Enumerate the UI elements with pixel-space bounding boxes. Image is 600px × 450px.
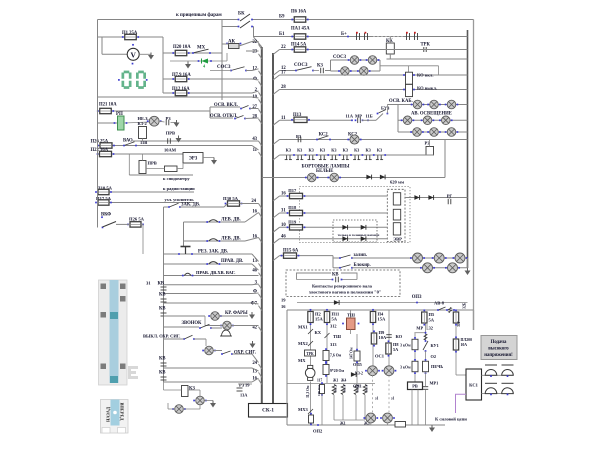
svg-text:К3: К3 <box>365 147 370 152</box>
svg-text:ТШ: ТШ <box>347 313 355 318</box>
svg-text:100 Ом: 100 Ом <box>317 384 321 396</box>
svg-text:З2Б: З2Б <box>463 302 467 309</box>
svg-text:НАЗАД: НАЗАД <box>106 407 111 422</box>
svg-text:КВ: КВ <box>159 293 166 298</box>
svg-text:ОП2: ОП2 <box>313 429 323 434</box>
svg-text:к радиостанции: к радиостанции <box>163 186 195 191</box>
svg-text:Ф: Ф <box>253 290 257 295</box>
svg-text:П17: П17 <box>288 188 297 193</box>
svg-text:620 мм: 620 мм <box>390 180 404 185</box>
svg-text:.32: .32 <box>428 326 433 331</box>
svg-text:К3: К3 <box>354 147 359 152</box>
svg-text:ОСВ. ВКЛ.: ОСВ. ВКЛ. <box>214 103 238 108</box>
svg-text:СОСЗ: СОСЗ <box>294 63 308 68</box>
svg-text:Ж1.3: Ж1.3 <box>334 384 338 392</box>
svg-text:Б9: Б9 <box>279 15 285 20</box>
svg-text:БК: БК <box>238 12 245 17</box>
svg-text:ТРК: ТРК <box>306 352 314 356</box>
svg-text:МХ1: МХ1 <box>298 325 308 330</box>
svg-text:МР: МР <box>416 326 423 331</box>
svg-text:ОП1: ОП1 <box>353 384 362 389</box>
svg-text:16: 16 <box>281 192 286 197</box>
svg-text:к прицепным фарам: к прицепным фарам <box>176 13 222 18</box>
svg-text:П18: П18 <box>288 205 297 210</box>
svg-text:Блокир.: Блокир. <box>354 263 371 268</box>
svg-text:СК-1: СК-1 <box>262 408 274 414</box>
svg-text:19: 19 <box>281 298 286 303</box>
svg-text:ВЫКЛ. ОХР. СИГ.: ВЫКЛ. ОХР. СИГ. <box>143 334 180 339</box>
svg-text:5А: 5А <box>332 317 338 322</box>
svg-text:42: 42 <box>252 326 257 331</box>
svg-text:15А: 15А <box>378 317 387 322</box>
svg-text:К3: К3 <box>377 147 382 152</box>
svg-text:З1: З1 <box>146 281 151 286</box>
svg-text:ВПЕРЕД: ВПЕРЕД <box>120 403 125 421</box>
svg-text:Контакты реверсивного вала: Контакты реверсивного вала <box>312 284 373 289</box>
svg-text:46: 46 <box>281 234 286 239</box>
svg-text:147 Ом: 147 Ом <box>350 347 354 359</box>
svg-text:31,3 Ом: 31,3 Ом <box>306 385 310 398</box>
svg-text:ТШ: ТШ <box>333 334 341 339</box>
svg-text:К силовой цепи: К силовой цепи <box>435 417 467 422</box>
svg-text:з1: з1 <box>391 397 395 401</box>
svg-text:Ж1: Ж1 <box>333 379 339 383</box>
svg-text:МР1: МР1 <box>430 381 439 386</box>
svg-text:ПРАВ. ДВ.ХВ. ВАГ.: ПРАВ. ДВ.ХВ. ВАГ. <box>196 270 235 275</box>
svg-text:24: 24 <box>252 361 257 366</box>
svg-text:Подача: Подача <box>491 340 507 345</box>
svg-text:13А: 13А <box>240 393 248 398</box>
svg-text:ОСВ. ОТКЛ.: ОСВ. ОТКЛ. <box>210 114 237 119</box>
svg-text:БЕЛЫЕ: БЕЛЫЕ <box>316 169 333 174</box>
svg-text:КХ: КХ <box>315 330 322 335</box>
svg-text:ЭВР: ЭВР <box>393 237 402 242</box>
svg-text:28: 28 <box>252 115 257 120</box>
svg-text:15А: 15А <box>315 317 324 322</box>
svg-text:КО выкл.: КО выкл. <box>417 86 437 91</box>
svg-text:17: 17 <box>281 71 286 76</box>
svg-text:КР. ФАРЫ: КР. ФАРЫ <box>225 311 248 316</box>
svg-text:К3: К3 <box>286 147 291 152</box>
svg-text:залип.: залип. <box>354 253 367 258</box>
svg-text:ЗВОНОК: ЗВОНОК <box>182 321 203 326</box>
svg-text:Ж1.4: Ж1.4 <box>343 384 347 392</box>
svg-text:11Б: 11Б <box>366 114 373 119</box>
svg-text:11: 11 <box>281 116 286 121</box>
svg-text:КВ: КВ <box>159 371 166 376</box>
svg-text:К3: К3 <box>297 147 302 152</box>
svg-text:V: V <box>130 51 136 60</box>
svg-text:19: 19 <box>245 383 250 388</box>
svg-text:напряжения!: напряжения! <box>484 353 513 358</box>
svg-text:П26 5А: П26 5А <box>129 216 145 221</box>
svg-text:ПЕЧЬ: ПЕЧЬ <box>431 364 443 369</box>
svg-text:10: 10 <box>281 223 286 228</box>
svg-text:ЭРЗ: ЭРЗ <box>189 157 198 162</box>
svg-text:к спидометру: к спидометру <box>163 176 191 181</box>
svg-text:ОСВ. КАБ.: ОСВ. КАБ. <box>389 99 413 104</box>
svg-text:только в головных вагонах: только в головных вагонах <box>338 233 380 237</box>
svg-text:22: 22 <box>281 45 286 50</box>
svg-text:СОСЗ: СОСЗ <box>217 65 231 70</box>
svg-text:10А: 10А <box>379 335 388 340</box>
svg-text:ПА1 45А: ПА1 45А <box>291 27 310 32</box>
svg-text:5А: 5А <box>393 347 399 352</box>
svg-text:КЗ: КЗ <box>189 387 195 392</box>
svg-text:П19: П19 <box>288 219 297 224</box>
svg-text:КС1: КС1 <box>469 383 478 388</box>
svg-text:10АМ: 10АМ <box>164 148 177 153</box>
svg-text:ОС1: ОС1 <box>375 354 385 359</box>
svg-text:ПЛ200: ПЛ200 <box>461 338 473 342</box>
svg-text:9*20 Ом: 9*20 Ом <box>330 369 344 373</box>
svg-text:К3: К3 <box>331 147 336 152</box>
svg-text:КС2: КС2 <box>319 133 329 138</box>
svg-text:23: 23 <box>252 50 257 55</box>
svg-text:хвостового вагона в положении: хвостового вагона в положении "0" <box>309 290 381 295</box>
svg-text:ОП5: ОП5 <box>353 362 362 367</box>
svg-text:РВ: РВ <box>412 384 418 389</box>
svg-text:З12: З12 <box>330 324 337 329</box>
svg-text:5А: 5А <box>429 318 435 323</box>
svg-text:МХ: МХ <box>197 46 206 51</box>
svg-text:ПРВ: ПРВ <box>148 161 157 166</box>
svg-text:16: 16 <box>281 304 286 309</box>
svg-text:З13: З13 <box>330 342 337 347</box>
svg-text:КВ: КВ <box>158 282 165 287</box>
svg-text:З1Г: З1Г <box>457 320 461 327</box>
svg-text:МР: МР <box>355 114 362 119</box>
svg-text:П20 10А: П20 10А <box>173 45 191 50</box>
svg-text:з1: з1 <box>375 397 379 401</box>
svg-text:КВ: КВ <box>159 307 166 312</box>
svg-text:П5: П5 <box>429 312 436 317</box>
svg-text:117: 117 <box>317 379 322 383</box>
svg-text:П6 16А: П6 16А <box>291 10 307 15</box>
svg-text:КВ: КВ <box>159 357 166 362</box>
svg-text:РЕЗ. ЗАК. ДВ.: РЕЗ. ЗАК. ДВ. <box>198 250 228 255</box>
svg-text:22: 22 <box>252 40 257 45</box>
svg-text:Ж4: Ж4 <box>341 379 347 383</box>
svg-text:СОСЗ: СОСЗ <box>333 55 346 60</box>
svg-text:высокого: высокого <box>488 347 509 352</box>
svg-text:К3: К3 <box>320 147 325 152</box>
svg-text:28: 28 <box>281 85 286 90</box>
svg-text:3 кОм: 3 кОм <box>400 344 411 348</box>
svg-text:3 кОм: 3 кОм <box>400 366 411 370</box>
svg-text:11В: 11В <box>140 140 147 145</box>
svg-text:ЛЕВ. ДВ.: ЛЕВ. ДВ. <box>221 237 241 242</box>
svg-text:ЛЕВ. ДВ.: ЛЕВ. ДВ. <box>221 218 241 223</box>
svg-text:Ж3.4: Ж3.4 <box>365 384 369 392</box>
svg-text:ПРВ: ПРВ <box>166 131 175 136</box>
svg-text:11А: 11А <box>346 114 354 119</box>
svg-text:К3-2: К3-2 <box>138 121 148 126</box>
svg-text:27: 27 <box>252 105 257 110</box>
svg-text:ТРК: ТРК <box>421 42 431 47</box>
svg-text:узл. усилитель: узл. усилитель <box>165 197 195 202</box>
svg-text:АВ-8: АВ-8 <box>434 301 445 306</box>
svg-text:31: 31 <box>281 209 286 214</box>
svg-text:МХ: МХ <box>298 358 306 363</box>
svg-text:П21 10А: П21 10А <box>99 103 117 108</box>
svg-text:К3: К3 <box>308 147 313 152</box>
svg-text:КЗ: КЗ <box>317 64 323 69</box>
svg-text:10А: 10А <box>461 343 468 347</box>
svg-text:О2: О2 <box>431 354 437 359</box>
svg-text:ПРАВ. ДВ.: ПРАВ. ДВ. <box>221 259 243 264</box>
svg-text:7,6 Ом: 7,6 Ом <box>330 354 342 358</box>
svg-text:К3: К3 <box>343 147 348 152</box>
svg-text:МХ3: МХ3 <box>298 407 308 412</box>
svg-text:КО вкл.: КО вкл. <box>417 73 433 78</box>
svg-text:ОПЗ: ОПЗ <box>412 295 422 300</box>
svg-text:КУ1: КУ1 <box>431 343 439 348</box>
svg-text:КО: КО <box>396 334 403 339</box>
svg-text:Б+: Б+ <box>341 32 347 37</box>
svg-text:Ж1: Ж1 <box>340 422 346 426</box>
svg-text:МХ2: МХ2 <box>298 341 308 346</box>
svg-text:Б1: Б1 <box>279 32 285 37</box>
